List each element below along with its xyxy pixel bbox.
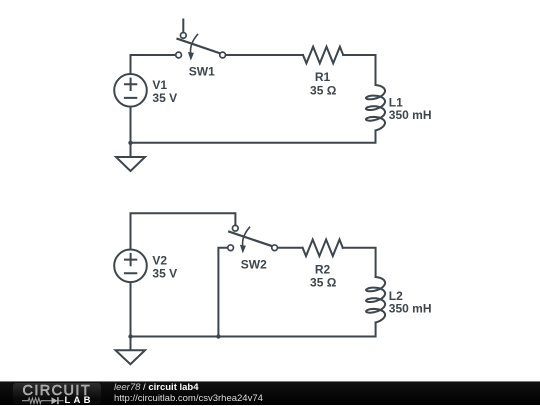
- svg-text:35 Ω: 35 Ω: [310, 83, 337, 97]
- logo mini resistor + diode: [22, 396, 68, 406]
- inductor L2: [366, 277, 385, 323]
- attribution line 2: [114, 393, 263, 404]
- svg-text:35 V: 35 V: [152, 267, 177, 281]
- SW1 throw terminal lead: [182, 20, 184, 33]
- svg-text:35 V: 35 V: [152, 91, 177, 105]
- svg-text:V1: V1: [152, 78, 167, 92]
- CircuitLab logo tile: [13, 383, 101, 404]
- SW1 top terminal: [180, 33, 186, 39]
- wire: V2 top to SW2 top terminal: [131, 213, 236, 248]
- wire: SW1 right terminal to R1: [226, 54, 303, 56]
- logo word CIRCUIT: [23, 383, 92, 399]
- logo word LAB: [65, 395, 94, 406]
- SW1 blade: [178, 39, 221, 54]
- resistor R1: [303, 47, 343, 64]
- wire: R1 to L1 top corner: [343, 55, 375, 85]
- switch SW2: [228, 225, 278, 253]
- svg-text:SW2: SW2: [241, 258, 267, 272]
- wire: V1 bottom to ground: [130, 108, 132, 157]
- ground (top circuit): [116, 157, 145, 171]
- switch SW1: [176, 20, 226, 61]
- inductor L1: [366, 85, 385, 131]
- resistor R2: [303, 240, 343, 257]
- svg-text:V2: V2: [152, 253, 167, 267]
- wire: V2 bottom to ground: [130, 283, 132, 350]
- wire: SW2 right terminal to R2: [278, 247, 303, 249]
- svg-text:R2: R2: [315, 262, 331, 276]
- svg-text:SW1: SW1: [189, 65, 215, 79]
- attribution line 1: [114, 382, 199, 393]
- SW2 actuation arrow: [243, 227, 250, 245]
- junction node (top circuit): [128, 141, 132, 145]
- junction node: V2 bottom rail: [128, 334, 132, 338]
- SW2 left terminal: [228, 245, 234, 251]
- junction node: SW2 leg on bottom rail: [216, 334, 220, 338]
- wire: SW2 left terminal to bottom rail: [218, 248, 227, 337]
- SW2 top terminal: [232, 225, 238, 231]
- svg-text:350 mH: 350 mH: [389, 108, 432, 122]
- SW2 right terminal: [272, 245, 278, 251]
- wire top: V1 top corner to SW1 left terminal: [131, 55, 176, 73]
- wire: L2 bottom to bottom rail: [131, 323, 376, 337]
- SW1 actuation arrow: [191, 35, 198, 53]
- svg-text:35 Ω: 35 Ω: [310, 276, 337, 290]
- voltage source V2: [114, 249, 147, 282]
- SW1 right terminal: [220, 52, 226, 58]
- svg-text:350 mH: 350 mH: [389, 302, 432, 316]
- footer bar: [0, 381, 540, 405]
- wire: R2 to L2 top corner: [343, 248, 376, 277]
- wire: L1 bottom to ground node: [131, 131, 376, 143]
- SW1 left terminal: [176, 52, 182, 58]
- voltage source V1: [114, 74, 147, 107]
- svg-text:R1: R1: [315, 70, 331, 84]
- SW2 blade: [229, 232, 272, 247]
- ground (bottom circuit): [116, 350, 146, 364]
